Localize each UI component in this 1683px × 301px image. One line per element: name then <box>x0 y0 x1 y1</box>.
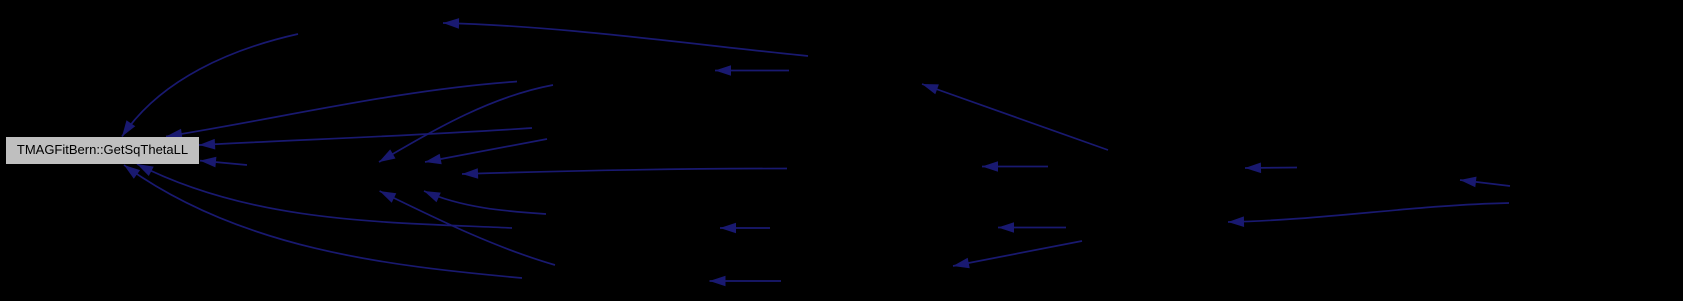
wire call edge into hidden caller node A (lower steep) <box>380 191 555 265</box>
wire call edge mid-low diagonal <box>953 241 1082 266</box>
wire call edge top-most (long) <box>443 23 808 56</box>
arrowhead for call edge short into GetSqThetaLL right-lower <box>200 157 216 168</box>
wire call edge into GetSqThetaLL (right upper) <box>199 128 532 145</box>
wire call edge mid-low short horizontal <box>998 227 1066 229</box>
wire call edge mid short horizontal <box>982 166 1048 168</box>
arrowhead for call edge into GetSqThetaLL (bottom outer curve) <box>124 165 140 179</box>
arrowhead for call edge mid top short <box>715 65 731 76</box>
arrowhead for call edge far right (long) <box>1228 216 1244 227</box>
wire call edge mid top short <box>715 70 789 72</box>
wire call edge into hidden caller node A (steep) <box>379 85 553 162</box>
wire call edge far-right short <box>1460 180 1510 186</box>
arrowhead for call edge into hidden caller node A (steep) <box>379 149 396 162</box>
node: TMAGFitBern::GetSqThetaLL (central grey node) <box>6 137 199 164</box>
wire call edge into GetSqThetaLL (bottom inner curve) <box>137 164 512 228</box>
arrowhead for call edge top-most (long) <box>443 18 459 29</box>
arrowhead for call edge into hidden caller node A (lower steep) <box>380 191 397 203</box>
wire call edge far right (long) <box>1228 203 1509 222</box>
wire call edge short into GetSqThetaLL right-lower <box>200 161 247 165</box>
arrowhead for call edge into GetSqThetaLL (top-left curve) <box>122 120 135 136</box>
arrowhead for call edge right short horizontal <box>1245 163 1261 174</box>
arrowhead for call edge mid short horizontal <box>982 161 998 172</box>
arrowhead for call edge mid-low short horizontal <box>998 222 1014 233</box>
arrowhead for call edge into GetSqThetaLL (upper straightish) <box>166 129 183 140</box>
arrowhead for call edge mid diagonal <box>922 84 939 94</box>
arrowhead for call edge into hidden node A (from upper right) <box>425 154 442 164</box>
wire call edge into hidden node A (from upper right) <box>425 139 547 162</box>
arrowhead for call edge into hidden caller node A (lower) <box>424 191 441 202</box>
wire call edge into hidden caller node A (lower) <box>424 191 546 214</box>
wire call edge low-mid short horizontal 2 <box>710 280 782 282</box>
arrowhead for call edge low-mid short horizontal <box>720 223 736 234</box>
wire call edge into GetSqThetaLL (upper straightish) <box>166 82 517 137</box>
arrowhead for call edge into hidden caller node A (long horizontal) <box>462 168 478 179</box>
wire call edge into hidden caller node A (long horizontal) <box>462 169 787 175</box>
wire call edge into GetSqThetaLL (bottom outer curve) <box>124 165 522 278</box>
arrowhead for call edge mid-low diagonal <box>953 258 970 268</box>
arrowhead for call edge low-mid short horizontal 2 <box>710 276 726 287</box>
wire call edge low-mid short horizontal <box>720 227 770 229</box>
arrowhead for call edge into GetSqThetaLL (bottom inner curve) <box>137 164 154 176</box>
arrowhead for call edge far-right short <box>1460 177 1477 188</box>
wire call edge mid diagonal <box>922 84 1108 150</box>
wire call edge into GetSqThetaLL (top-left curve) <box>122 34 298 137</box>
arrowhead for call edge into GetSqThetaLL (right upper) <box>199 139 215 150</box>
wire call edge right short horizontal <box>1245 167 1297 170</box>
